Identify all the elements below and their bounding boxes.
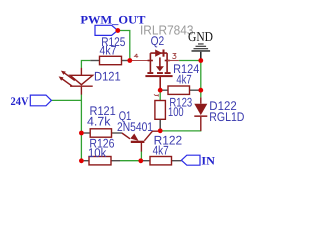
svg-text:2N5401: 2N5401 — [117, 120, 153, 134]
svg-text:D121: D121 — [94, 70, 121, 84]
flag IN — [181, 155, 215, 167]
resistor R125 — [90, 35, 127, 65]
junction dot gate node — [158, 88, 163, 93]
wire Q2 pin3 to GND node — [179, 60, 201, 62]
wire PWM_OUT net from flag to Q2 pin4 node — [118, 31, 130, 61]
resistor R124 — [163, 62, 200, 94]
junction dot Q1 base node — [138, 158, 143, 163]
wire R126 to Q1 base node — [120, 160, 141, 162]
svg-text:24V: 24V — [11, 96, 30, 108]
svg-text:4k7: 4k7 — [100, 43, 117, 57]
svg-text:IN: IN — [201, 155, 215, 167]
flag PWM_OUT — [80, 14, 145, 35]
svg-text:10k: 10k — [88, 146, 107, 160]
svg-text:4.7k: 4.7k — [87, 115, 111, 129]
wire GND rail down right side to D122 anode — [200, 61, 202, 98]
wire top-left rail from LED anode to R125 — [81, 61, 90, 69]
resistor R123 (vertical) — [154, 94, 192, 128]
resistor R121 — [84, 104, 122, 137]
transistor Q1 (PNP 2N5401) — [117, 109, 158, 151]
junction dot GND node — [198, 58, 203, 63]
svg-text:4k7: 4k7 — [176, 73, 191, 87]
flag 24V — [11, 95, 52, 108]
junction dot R121 left node — [79, 131, 84, 136]
svg-text:100: 100 — [168, 105, 184, 119]
junction dot collector node — [158, 128, 163, 133]
wire gate node to R123 top — [159, 90, 161, 100]
diode D122 (RGL1D) — [194, 97, 244, 130]
svg-text:4k7: 4k7 — [153, 144, 169, 158]
svg-text:Q2: Q2 — [151, 34, 165, 48]
resistor R122 — [143, 133, 182, 165]
wire Q1 base vertical green — [140, 151, 142, 160]
wire left rail from LED cathode down past 24V tee to R126 — [80, 95, 82, 161]
svg-text:RGL1D: RGL1D — [209, 110, 244, 124]
wire 24V net — [51, 99, 81, 101]
svg-text:PWM_OUT: PWM_OUT — [80, 14, 145, 26]
wire collector node to D122 cathode — [160, 130, 201, 132]
junction dot R126 left node — [79, 158, 84, 163]
svg-text:IRLR7843: IRLR7843 — [140, 22, 194, 37]
junction dot R124 right node — [198, 88, 203, 93]
junction dot Q2 pin4 node — [127, 58, 132, 63]
svg-text:GND: GND — [188, 29, 213, 44]
MOSFET Q2 (IRLR7843) — [131, 50, 179, 90]
ground GND — [188, 29, 213, 58]
junction dot at PWM_OUT flag tip — [115, 28, 120, 33]
resistor R126 — [84, 136, 120, 165]
LED D121 — [59, 68, 93, 95]
